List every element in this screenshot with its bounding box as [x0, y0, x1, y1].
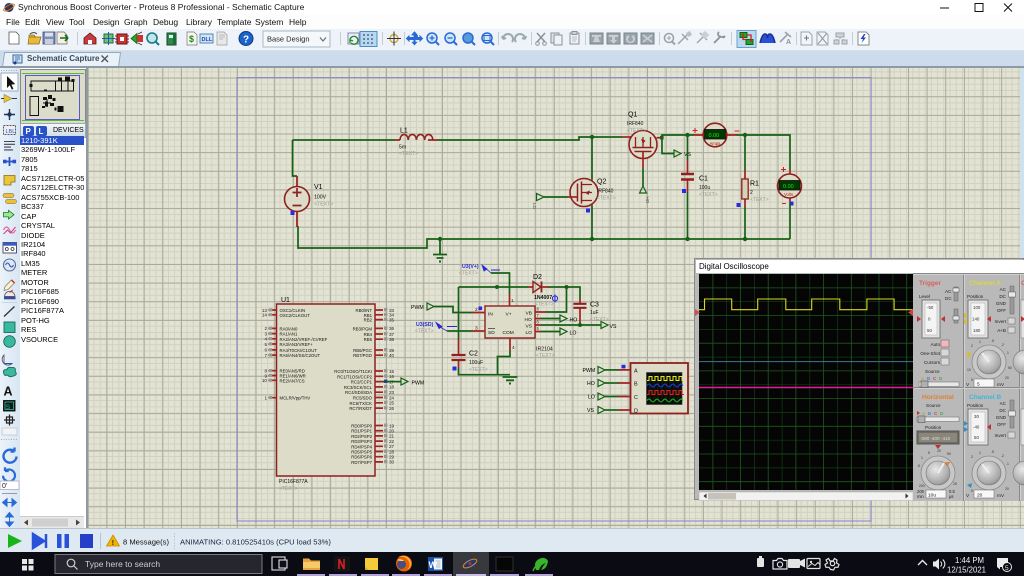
svg-text:U3(V+): U3(V+) — [462, 264, 479, 270]
trigger arrow right edge — [908, 309, 913, 316]
svg-text:PWM: PWM — [412, 381, 425, 387]
wire C1 bottom to ground rail — [687, 192, 689, 239]
terminal scope B HO — [587, 380, 605, 388]
svg-text:VS: VS — [610, 324, 617, 330]
svg-text:5: 5 — [977, 382, 980, 388]
svg-text:HO: HO — [587, 381, 595, 387]
svg-text:<TEXT>: <TEXT> — [627, 128, 646, 134]
wire V+ pin riser — [491, 273, 510, 294]
svg-text:7: 7 — [264, 353, 267, 358]
battery source V1 — [285, 176, 334, 227]
wire scope A — [605, 369, 619, 371]
svg-text:LO: LO — [532, 203, 537, 210]
wire R1 bottom to ground rail — [744, 207, 746, 239]
svg-text:ANIMATING: 0.810525410s (CPU l: ANIMATING: 0.810525410s (CPU load 53%) — [180, 537, 331, 546]
svg-text:A: A — [634, 368, 638, 374]
svg-text:RB2: RB2 — [364, 318, 373, 323]
svg-text:D2: D2 — [533, 274, 542, 281]
diode D2 — [528, 274, 558, 308]
svg-text:Invert: Invert — [995, 433, 1007, 438]
wire Q1 drain to output node — [662, 135, 694, 139]
junction R1 top — [743, 133, 747, 137]
microcontroller U1 PIC16F877A — [262, 297, 395, 492]
svg-text:RC4/SDI/SDA: RC4/SDI/SDA — [345, 390, 372, 395]
wire SD pin — [447, 330, 472, 332]
svg-text:<TEXT>: <TEXT> — [750, 197, 769, 203]
terminal VS — [601, 322, 617, 331]
svg-text:16: 16 — [389, 374, 395, 379]
svg-text:25: 25 — [389, 401, 395, 406]
svg-text:15: 15 — [389, 369, 395, 374]
svg-text:U3(SD): U3(SD) — [416, 322, 434, 328]
svg-text:26: 26 — [389, 406, 395, 411]
svg-text:LO: LO — [526, 330, 533, 336]
svg-text:LBL: LBL — [6, 129, 16, 135]
svg-text:HO: HO — [570, 318, 578, 324]
svg-text:PIC16F877A: PIC16F877A — [279, 479, 308, 485]
svg-text:SD: SD — [488, 330, 495, 336]
svg-text:1: 1 — [264, 396, 267, 401]
transistor Q2 IRF840 — [568, 179, 616, 213]
svg-text:RA3/AN3/VREF+: RA3/AN3/VREF+ — [280, 342, 314, 347]
svg-text:HO: HO — [645, 197, 650, 204]
wire ammeter to voltmeter top — [737, 135, 791, 169]
svg-text:20: 20 — [1005, 376, 1009, 380]
svg-text:D: D — [634, 408, 638, 414]
svg-text:<TEXT>: <TEXT> — [399, 151, 418, 157]
left tool icons column — [0, 68, 20, 528]
ammeter — [693, 123, 740, 147]
svg-text:P: P — [26, 127, 32, 136]
terminal Q2 gate — [532, 194, 544, 210]
svg-text:Position: Position — [967, 294, 984, 299]
svg-text:100V: 100V — [314, 195, 327, 201]
svg-text:AC: AC — [1000, 287, 1007, 292]
svg-text:Channel A: Channel A — [969, 280, 1001, 287]
svg-text:VS: VS — [526, 323, 532, 329]
svg-text:R1: R1 — [750, 181, 759, 188]
svg-text:-40: -40 — [973, 425, 980, 430]
svg-text:RB7/PGD: RB7/PGD — [353, 353, 372, 358]
wire PWM to IN pin — [434, 307, 472, 313]
svg-text:AC: AC — [1000, 401, 1007, 406]
control panel — [913, 273, 1024, 501]
wire Q2 drain from top rail — [591, 137, 593, 179]
svg-text:RA5/AN4/SS/C2OUT: RA5/AN4/SS/C2OUT — [280, 353, 321, 358]
svg-text:0.00: 0.00 — [709, 133, 720, 139]
svg-text:3: 3 — [475, 326, 478, 332]
svg-text:100uF: 100uF — [469, 360, 483, 366]
svg-text:$: $ — [189, 34, 194, 44]
svg-text:14: 14 — [262, 313, 268, 318]
svg-text:5m: 5m — [399, 145, 406, 151]
svg-text:<TEXT>: <TEXT> — [699, 192, 718, 198]
svg-text:Position: Position — [925, 425, 942, 430]
svg-text:B: B — [927, 376, 930, 381]
wire VB pin — [546, 287, 567, 312]
junction Q2 source / ground rail — [590, 237, 594, 241]
svg-text:50: 50 — [1008, 366, 1012, 370]
svg-text:24: 24 — [389, 395, 395, 400]
capacitor C2 — [452, 339, 488, 373]
svg-text:50: 50 — [974, 435, 979, 440]
svg-text:5: 5 — [264, 342, 267, 347]
wire top rail from V1 to L1 — [293, 139, 396, 141]
svg-text:RB3/PGM: RB3/PGM — [353, 326, 373, 331]
node label U3(SD) — [415, 322, 457, 335]
ground main rail — [433, 237, 447, 263]
svg-text:RC3/SCK/SCL: RC3/SCK/SCL — [344, 385, 373, 390]
wire VS branch from Q1 drain — [662, 139, 674, 154]
junction supply rail — [495, 285, 499, 289]
Digital Oscilloscope window — [694, 258, 1024, 500]
svg-text:4: 4 — [512, 345, 515, 351]
wire HO to terminal — [541, 318, 560, 320]
svg-text:23: 23 — [389, 390, 395, 395]
wire C3 bottom to VS net — [579, 322, 581, 325]
screen — [699, 274, 913, 490]
capacitor C3 — [574, 299, 609, 323]
svg-text:Cursors: Cursors — [924, 360, 941, 365]
svg-text:<TEXT>: <TEXT> — [415, 329, 434, 335]
terminal PWM input — [411, 303, 434, 311]
wire top rail from L1 to Q1 drain — [437, 137, 622, 140]
svg-text:50: 50 — [947, 452, 951, 456]
svg-text:DC: DC — [999, 408, 1006, 413]
taskbar — [0, 552, 1024, 576]
svg-text:Horizontal: Horizontal — [922, 394, 954, 401]
wire VS to terminal — [541, 324, 601, 326]
svg-text:38: 38 — [389, 337, 395, 342]
svg-text:1: 1 — [979, 451, 981, 455]
svg-text:1:44 PM: 1:44 PM — [955, 556, 984, 565]
title bar — [0, 0, 1024, 14]
svg-text:RC1/T1OSI/CCP2: RC1/T1OSI/CCP2 — [337, 374, 372, 379]
wire scope C — [605, 396, 619, 398]
svg-text:V+: V+ — [506, 311, 512, 317]
inductor L1 — [395, 128, 437, 158]
svg-text:MCLR/Vpp/THV: MCLR/Vpp/THV — [280, 396, 311, 401]
svg-text:8 Message(s): 8 Message(s) — [123, 537, 169, 546]
svg-text:IN: IN — [488, 311, 493, 317]
svg-text:1: 1 — [511, 298, 514, 304]
channel A square wave — [699, 299, 913, 310]
svg-text:C: C — [634, 395, 638, 401]
svg-text:A+B: A+B — [997, 328, 1006, 333]
terminal PWM output — [401, 378, 424, 387]
wire RC2 PWM output — [383, 381, 401, 383]
wire supply rail to D2 — [459, 286, 529, 288]
svg-text:S: S — [6, 404, 11, 411]
svg-text:LO: LO — [588, 395, 595, 401]
svg-text:RB5: RB5 — [364, 337, 373, 342]
terminal HO — [560, 315, 577, 324]
svg-text:Level: Level — [919, 294, 930, 299]
wire scope B — [605, 382, 619, 384]
terminal VS node — [674, 150, 691, 158]
svg-text:L1: L1 — [400, 128, 408, 135]
junction output top / C1 — [685, 133, 689, 137]
svg-text:1: 1 — [979, 340, 981, 344]
svg-text:100: 100 — [973, 305, 981, 310]
svg-text:Type here to search: Type here to search — [85, 559, 160, 569]
svg-text:30: 30 — [974, 414, 979, 419]
svg-text:DC: DC — [999, 294, 1006, 299]
svg-text:PWM: PWM — [411, 305, 424, 311]
svg-text:200: 200 — [919, 484, 925, 488]
wire supply vertical to C2 — [458, 287, 460, 339]
wire V1 top — [293, 140, 298, 176]
svg-text:10: 10 — [262, 378, 268, 383]
wire C2 bottom to common — [459, 368, 511, 375]
svg-text:Auto: Auto — [931, 342, 941, 347]
channel D line — [699, 387, 913, 389]
junction C3 / VS wire — [578, 323, 582, 327]
svg-text:VS: VS — [587, 408, 594, 414]
junction C1 / ground rail — [685, 237, 689, 241]
svg-text:35: 35 — [389, 317, 395, 322]
svg-text:12/15/2021: 12/15/2021 — [947, 566, 986, 575]
svg-text:18: 18 — [389, 385, 395, 390]
svg-text:mV: mV — [997, 493, 1005, 499]
svg-text:Base Design: Base Design — [267, 35, 310, 44]
wire D2 cathode to C3/VB — [548, 287, 580, 299]
wire LO to terminal — [541, 331, 560, 333]
svg-text:HO: HO — [525, 317, 532, 323]
svg-text:20: 20 — [977, 493, 983, 499]
svg-text:B: B — [928, 411, 931, 416]
svg-text:RD7/PSP7: RD7/PSP7 — [351, 460, 372, 465]
status bar — [0, 528, 1024, 553]
svg-text:2: 2 — [750, 190, 753, 196]
svg-text:min: min — [917, 494, 924, 499]
wire Q2 source to ground rail — [591, 206, 593, 239]
svg-text:140: 140 — [972, 317, 980, 322]
svg-text:1uF: 1uF — [590, 310, 599, 316]
svg-text:L: L — [39, 127, 44, 136]
svg-text:Channel B: Channel B — [969, 394, 1001, 401]
svg-text:-50: -50 — [927, 305, 934, 310]
svg-text:RC7/RX/DT: RC7/RX/DT — [349, 406, 372, 411]
wire C1 top — [687, 135, 689, 160]
svg-text:10u: 10u — [928, 493, 936, 499]
wire Q2 gate — [544, 196, 568, 198]
svg-text:OSC2/CLKOUT: OSC2/CLKOUT — [280, 313, 311, 318]
svg-text:COM: COM — [503, 330, 514, 336]
svg-text:DC: DC — [945, 296, 952, 301]
svg-text:.1: .1 — [1006, 351, 1009, 355]
svg-text:.5: .5 — [991, 339, 994, 343]
svg-text:PWM: PWM — [583, 368, 596, 374]
svg-text:Trigger: Trigger — [919, 280, 942, 287]
terminal Q1 source — [640, 186, 651, 204]
svg-text:RC5/SDO: RC5/SDO — [353, 396, 373, 401]
svg-text:Amps: Amps — [710, 141, 721, 146]
resistor R1 — [737, 170, 769, 207]
wire V1 bottom to ground rail — [298, 226, 790, 248]
svg-text:5: 5 — [971, 378, 973, 382]
svg-text:B: B — [634, 381, 638, 387]
terminal scope C LO — [588, 393, 605, 401]
right edge scrollbar strip — [1020, 68, 1024, 258]
ground IR2104 common — [503, 377, 518, 385]
transistor Q1 IRF840 — [622, 112, 657, 169]
capacitor C1 — [681, 160, 718, 198]
driver U3 IR2104 — [472, 294, 555, 359]
svg-text:Position: Position — [967, 403, 984, 408]
svg-text:7: 7 — [537, 313, 540, 318]
virtual oscilloscope component — [619, 363, 689, 414]
svg-text:Q2: Q2 — [597, 179, 606, 186]
voltmeter — [778, 167, 802, 206]
svg-text:30: 30 — [389, 460, 395, 465]
svg-text:LO: LO — [570, 331, 577, 337]
terminal LO — [560, 328, 576, 337]
svg-text:RE2/AN7/CS: RE2/AN7/CS — [280, 378, 305, 383]
svg-text:!: ! — [112, 540, 114, 547]
svg-text:?: ? — [243, 35, 249, 46]
wire R1 top — [744, 135, 746, 170]
svg-text:0': 0' — [2, 483, 7, 490]
svg-text:V1: V1 — [314, 184, 323, 191]
svg-text:U1: U1 — [281, 297, 290, 304]
svg-text:10: 10 — [967, 368, 971, 372]
svg-text:A: A — [4, 385, 13, 399]
wire scope D — [605, 409, 619, 411]
svg-text:<TEXT>: <TEXT> — [536, 353, 555, 359]
menu bar — [0, 14, 1024, 29]
svg-text:IR2104: IR2104 — [536, 347, 553, 353]
svg-text:.2: .2 — [1001, 454, 1004, 458]
svg-text:RC6/TX/CK: RC6/TX/CK — [350, 401, 373, 406]
svg-text:50: 50 — [927, 328, 932, 333]
wire Q1 source down to terminal — [642, 168, 644, 186]
svg-text:<TEXT>: <TEXT> — [459, 271, 478, 277]
channel B line — [699, 361, 913, 363]
svg-text:Volts: Volts — [784, 192, 793, 197]
svg-text:5: 5 — [928, 451, 930, 455]
svg-text:<TEXT>: <TEXT> — [279, 486, 298, 492]
svg-text:A: A — [786, 39, 791, 46]
schematic editor area — [88, 68, 1024, 528]
svg-text:25: 25 — [953, 482, 957, 486]
svg-text:5: 5 — [537, 326, 540, 331]
svg-text:2: 2 — [475, 307, 478, 313]
svg-text:5: 5 — [1005, 565, 1009, 572]
svg-text:DLL: DLL — [202, 37, 213, 43]
svg-text:GND: GND — [996, 301, 1007, 306]
svg-text:1: 1 — [921, 456, 923, 460]
svg-text:<TEXT>: <TEXT> — [469, 367, 488, 373]
node label U3(V+) — [459, 264, 500, 277]
svg-text:OFF: OFF — [997, 422, 1006, 427]
terminal scope A PWM — [583, 367, 606, 375]
svg-text:Q1: Q1 — [628, 112, 637, 119]
sheet border — [237, 78, 871, 521]
svg-text:C2: C2 — [469, 351, 478, 358]
svg-text:<TEXT>: <TEXT> — [314, 202, 333, 208]
svg-text:5: 5 — [971, 489, 973, 493]
toolbar — [0, 29, 1024, 51]
scrollbar — [699, 492, 913, 501]
svg-text:IRF840: IRF840 — [597, 189, 614, 195]
svg-text:One-Shot: One-Shot — [920, 351, 940, 356]
svg-text:IRF840: IRF840 — [627, 121, 644, 127]
svg-text:.2: .2 — [1001, 343, 1004, 347]
junction R1 / ground rail — [743, 237, 747, 241]
svg-text:.5: .5 — [917, 464, 920, 468]
svg-text:VB: VB — [526, 310, 532, 316]
svg-text:0.00: 0.00 — [783, 184, 794, 190]
svg-text:RC0/T1OSO/T1CKI: RC0/T1OSO/T1CKI — [334, 369, 372, 374]
svg-text:2: 2 — [971, 344, 973, 348]
svg-text:OFF: OFF — [997, 308, 1006, 313]
junction top rail / Q2 — [590, 135, 594, 139]
devices pane — [20, 68, 88, 528]
svg-text:Source: Source — [926, 403, 941, 408]
svg-text:<TEXT>: <TEXT> — [597, 196, 616, 202]
junction VB branch — [565, 285, 569, 289]
wire voltmeter bottom to ground rail — [789, 203, 791, 239]
svg-text:-390 -400 -410: -390 -400 -410 — [920, 436, 951, 441]
wire COM pin down — [498, 351, 511, 375]
svg-text:40: 40 — [389, 353, 395, 358]
svg-text:2: 2 — [971, 455, 973, 459]
svg-text:RC2/CCP1: RC2/CCP1 — [351, 380, 373, 385]
svg-text:36: 36 — [389, 326, 395, 331]
svg-text:mV: mV — [997, 382, 1005, 388]
svg-text:C1: C1 — [699, 176, 708, 183]
svg-text:20: 20 — [1005, 487, 1009, 491]
svg-text:.5: .5 — [991, 450, 994, 454]
svg-text:Source: Source — [925, 369, 940, 374]
svg-text:1N4007: 1N4007 — [534, 295, 552, 301]
svg-text:AC: AC — [945, 289, 952, 294]
svg-text:<TEXT>: <TEXT> — [590, 317, 609, 323]
svg-text:W: W — [429, 560, 438, 570]
corner marker Q1 drain — [657, 136, 664, 140]
svg-text:C3: C3 — [590, 302, 599, 309]
svg-text:6: 6 — [537, 320, 540, 325]
svg-text:Invert: Invert — [995, 319, 1007, 324]
svg-text:180: 180 — [973, 328, 981, 333]
terminal scope D VS — [587, 407, 605, 415]
tab bar — [0, 51, 1024, 66]
svg-text:μs: μs — [949, 494, 954, 499]
svg-text:20: 20 — [937, 449, 941, 453]
svg-text:GND: GND — [996, 415, 1007, 420]
svg-text:.1: .1 — [1006, 462, 1009, 466]
svg-text:100u: 100u — [699, 185, 710, 191]
